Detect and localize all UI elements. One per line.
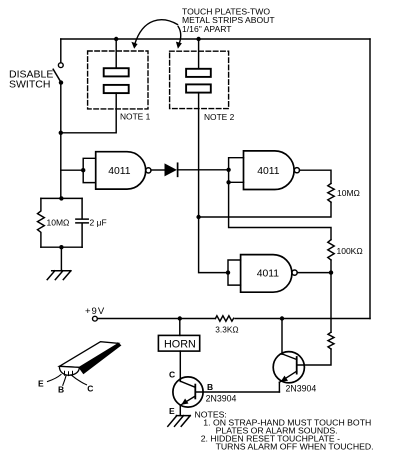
transistor package drawing — [59, 342, 120, 376]
svg-text:E: E — [38, 379, 44, 389]
gate U1C output bubble — [292, 270, 297, 275]
op-amp gate U1B 4011 — [244, 151, 295, 190]
resistor R4 base zigzag — [328, 332, 334, 349]
HORN box — [158, 335, 199, 351]
wire Q1 emitter to ground — [179, 405, 181, 415]
package front D face — [59, 366, 79, 375]
node gate2 in lower — [226, 180, 230, 184]
svg-text:4011: 4011 — [257, 166, 280, 177]
svg-text:NOTE 1: NOTE 1 — [120, 111, 151, 121]
wire box1 top — [115, 39, 117, 68]
wire RC bottom — [41, 246, 82, 248]
svg-text:HORN: HORN — [164, 339, 196, 351]
node gate3 input — [226, 270, 230, 274]
package lead ticks — [65, 371, 73, 375]
lead B curve — [63, 376, 66, 386]
touch plate box 1 dashed — [88, 51, 148, 109]
arrow to box1 — [135, 20, 178, 44]
touch plate box 2 dashed — [170, 51, 229, 108]
svg-text:+9V: +9V — [85, 306, 105, 317]
wire diode to gate2 — [178, 169, 228, 171]
wire gate2 input bracket — [229, 158, 244, 183]
wire Q2 emitter down — [278, 382, 280, 392]
wire RC top — [41, 197, 82, 199]
package black side face — [79, 343, 120, 373]
wire right rail — [369, 39, 371, 319]
terminal +9V circle — [93, 316, 98, 321]
wire horn top — [179, 319, 181, 336]
switch S1 blade — [53, 69, 61, 82]
svg-text:4011: 4011 — [108, 166, 131, 177]
node gate2 in upper — [226, 168, 230, 172]
svg-text:4011: 4011 — [257, 269, 280, 280]
node box2 10M junction — [196, 215, 200, 219]
Q2 collector diagonal — [282, 354, 297, 360]
wire +9V horizontal rail — [97, 318, 370, 320]
wire gate3 input from box2 — [228, 260, 241, 285]
resistor R3 100K zigzag — [328, 240, 334, 260]
touch plate 1 lower — [104, 85, 129, 93]
Q2 base bar — [296, 357, 298, 374]
node gate1 input — [81, 168, 85, 172]
svg-text:C: C — [169, 370, 175, 380]
touch plate 2 lower — [186, 84, 211, 92]
transistor Q1 2N3904 circle — [173, 377, 203, 407]
svg-text:NOTE 2: NOTE 2 — [204, 112, 235, 122]
wire gate1 input bracket — [83, 158, 96, 182]
wire gate3 out — [297, 272, 331, 274]
touch plate 2 upper — [186, 69, 211, 77]
ground chassis symbol Q1 — [168, 416, 191, 427]
Q2 emitter diagonal — [279, 371, 296, 382]
wire 10M bottom to box2 node — [199, 202, 331, 217]
wire gate3 out down to base resistor — [330, 273, 332, 333]
svg-text:2N3904: 2N3904 — [286, 384, 317, 394]
diode D1 — [165, 163, 177, 176]
wire left rail upper — [60, 39, 62, 63]
Q1 collector diagonal — [180, 381, 195, 387]
wire horn bottom to Q1 collector — [179, 351, 181, 381]
svg-text:1/16" APART: 1/16" APART — [182, 24, 232, 34]
touch plate 1 upper — [104, 68, 129, 76]
svg-text:B: B — [207, 382, 213, 392]
wire left rail lower — [60, 83, 62, 199]
gate U1A output bubble — [146, 168, 151, 173]
resistor R1 10M zigzag — [38, 198, 45, 247]
arrow to box2 — [178, 27, 181, 45]
svg-text:2N3904: 2N3904 — [206, 394, 237, 404]
svg-text:10MΩ: 10MΩ — [337, 188, 360, 198]
Q1 emitter arrowhead — [181, 399, 188, 405]
node Q2 collector 9V — [280, 316, 284, 320]
wire gate2 out to 10M — [300, 170, 332, 183]
node box2 top rail — [196, 37, 200, 41]
gate U1B output bubble — [294, 168, 299, 173]
lead E curve — [48, 375, 62, 382]
package top face — [59, 342, 118, 368]
node RC top — [59, 196, 63, 200]
wire Q1 base to Q2 emitter — [195, 391, 279, 393]
ground chassis symbol RC — [47, 271, 71, 280]
wire gate1 input tap — [61, 169, 83, 171]
svg-text:C: C — [87, 383, 93, 393]
svg-text:3.3KΩ: 3.3KΩ — [215, 324, 238, 334]
op-amp gate U1C 4011 — [241, 255, 292, 293]
wire 100K bottom — [330, 260, 332, 273]
node box1 top rail — [114, 37, 118, 41]
transistor Q2 2N3904 circle — [273, 352, 304, 383]
wire gate1 out to diode — [151, 169, 165, 171]
wire box2 bottom long — [199, 93, 228, 273]
node box1 to rail — [59, 131, 63, 135]
wire RC to ground — [60, 247, 62, 271]
capacitor C1 2uF — [76, 198, 88, 247]
resistor 3.3K zigzag — [215, 316, 233, 321]
resistor R2 10M zigzag — [328, 183, 334, 202]
wire top supply rail — [61, 38, 370, 40]
wire gate2 input to 100K — [229, 182, 331, 239]
wire box1 bottom — [61, 93, 116, 133]
svg-text:SWITCH: SWITCH — [9, 79, 50, 91]
node RC bottom — [59, 245, 63, 249]
node gate3 out junction — [329, 270, 333, 274]
lead C curve — [71, 375, 87, 385]
Q1 base bar — [194, 385, 196, 399]
switch S1 open terminal — [58, 63, 63, 68]
node horn tap — [178, 316, 182, 320]
svg-text:B: B — [58, 385, 64, 395]
svg-text:E: E — [169, 406, 175, 416]
node switch contact — [59, 80, 63, 84]
svg-text:2 μF: 2 μF — [90, 217, 107, 227]
wire box2 top — [198, 39, 200, 69]
svg-text:10MΩ: 10MΩ — [47, 217, 70, 227]
Q2 collector wire — [281, 319, 283, 355]
svg-text:TURNS ALARM OFF WHEN TOUCHED.: TURNS ALARM OFF WHEN TOUCHED. — [216, 441, 374, 451]
Q2 emitter arrowhead — [281, 376, 288, 382]
wire base resistor to Q2 base — [297, 349, 331, 365]
op-amp gate U1A 4011 — [96, 152, 146, 189]
Q1 emitter diagonal — [180, 396, 195, 405]
svg-text:100KΩ: 100KΩ — [337, 246, 363, 256]
